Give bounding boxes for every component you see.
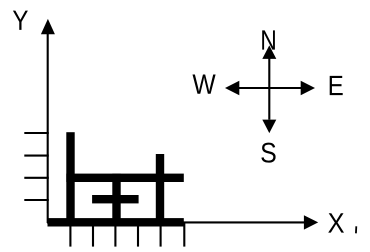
wall small cross horizontal (y=1 unit): [92, 195, 139, 203]
compass east arrowhead: [301, 81, 315, 95]
wall left vertical (x=1 unit): [66, 132, 74, 226]
wall middle horizontal (y=2 units): [66, 174, 184, 182]
y-axis tick 4: [24, 132, 49, 134]
compass vertical line: [268, 57, 270, 120]
x-axis tick 4: [137, 222, 139, 247]
compass label E: [330, 76, 343, 95]
x-axis tick 5: [160, 222, 162, 247]
x-axis tick 2: [92, 222, 94, 247]
y-axis tick 2: [24, 177, 49, 179]
label X (x-axis): [328, 213, 344, 232]
compass label S: [261, 143, 275, 163]
x-axis tick 3: [114, 222, 116, 247]
compass label N: [262, 30, 275, 49]
compass west arrowhead: [225, 81, 239, 95]
wall right vertical (x=5 units): [156, 154, 164, 226]
y-axis arrowhead: [41, 19, 55, 34]
y-axis line: [47, 34, 49, 224]
wall center vertical (x=3 units): [112, 174, 120, 227]
x-axis arrowhead: [304, 215, 318, 229]
compass south arrowhead: [262, 120, 276, 134]
label Y (y-axis): [13, 11, 28, 30]
wall bottom (thick horizontal bar on x-axis): [48, 218, 184, 226]
compass horizontal line: [237, 87, 302, 89]
compass label W: [193, 74, 216, 93]
x-axis line: [47, 221, 305, 223]
comma mark after X: [355, 226, 357, 233]
compass north arrowhead: [262, 45, 276, 59]
x-axis tick 1: [69, 222, 71, 247]
x-axis tick 6: [183, 222, 185, 247]
y-axis tick 3: [24, 155, 49, 157]
y-axis tick 1: [24, 199, 49, 201]
